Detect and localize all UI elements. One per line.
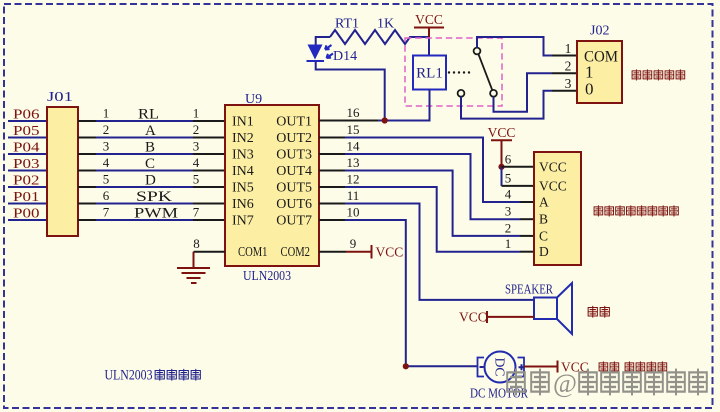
- svg-text:IN2: IN2: [232, 131, 254, 146]
- svg-text:ULN2003: ULN2003: [243, 269, 291, 284]
- svg-text:2: 2: [103, 122, 110, 137]
- wire OUT6 to speaker: [345, 204, 534, 300]
- svg-text:1: 1: [505, 236, 512, 251]
- svg-text:VCC: VCC: [539, 159, 567, 174]
- svg-text:4: 4: [193, 155, 200, 170]
- IC U9 ULN2003: [225, 105, 319, 266]
- svg-text:D: D: [145, 173, 156, 189]
- svg-text:ULN2003: ULN2003: [105, 368, 153, 384]
- svg-text:VCC: VCC: [415, 12, 443, 27]
- wire OUT4 to stepper C: [345, 171, 520, 236]
- svg-text:IN3: IN3: [232, 148, 254, 163]
- svg-text:15: 15: [347, 122, 360, 137]
- wire OUT1 to relay coil: [378, 120, 431, 122]
- wire net P01: [8, 203, 47, 205]
- connector J02: [577, 41, 622, 103]
- label dc motor interface cn: [599, 362, 667, 372]
- U9 pin 14 stub OUT3: [319, 153, 345, 155]
- svg-text:COM1: COM1: [238, 245, 268, 260]
- svg-text:IN5: IN5: [232, 181, 254, 196]
- wire J01 pin5 to U9 IN5: [78, 186, 225, 188]
- svg-text:VCC: VCC: [376, 245, 404, 260]
- U9 pin 10 stub OUT7: [319, 219, 345, 221]
- svg-text:P05: P05: [13, 123, 40, 138]
- svg-text:5: 5: [193, 172, 200, 187]
- svg-text:U9: U9: [245, 92, 262, 107]
- wire contact NC to J02 pin2: [494, 73, 553, 111]
- junction motor wire corner: [403, 363, 409, 369]
- svg-text:VCC: VCC: [459, 310, 487, 325]
- svg-text:P03: P03: [13, 156, 40, 171]
- svg-text:3: 3: [505, 204, 512, 219]
- svg-text:A: A: [539, 195, 549, 210]
- svg-text:7: 7: [103, 205, 110, 220]
- svg-text:13: 13: [347, 155, 360, 170]
- svg-text:OUT7: OUT7: [276, 214, 312, 229]
- svg-text:P06: P06: [13, 107, 40, 122]
- wire net P00: [8, 219, 47, 221]
- wire VCC to relay coil: [428, 37, 430, 56]
- svg-text:3: 3: [103, 139, 110, 154]
- LED D14: [308, 45, 323, 60]
- svg-text:2: 2: [565, 59, 572, 74]
- wire VCC to stepper pins: [501, 167, 503, 186]
- resistor RT1 1K: [330, 30, 429, 44]
- svg-text:COM2: COM2: [281, 245, 311, 260]
- svg-text:DC: DC: [493, 358, 508, 377]
- svg-text:OUT6: OUT6: [276, 197, 312, 212]
- wire contact NO to J02 pin3: [461, 91, 552, 119]
- svg-text:C: C: [145, 156, 155, 172]
- speaker LS: [534, 298, 557, 320]
- U9 pin 11 stub OUT6: [319, 203, 345, 205]
- wire J01 pin4 to U9 IN4: [78, 170, 225, 172]
- U9 pin 15 stub OUT2: [319, 137, 345, 139]
- svg-text:P02: P02: [13, 173, 40, 188]
- wire contact common to J02 pin1: [477, 37, 552, 56]
- svg-text:8: 8: [193, 236, 200, 251]
- wire J01 pin3 to U9 IN3: [78, 153, 225, 155]
- svg-text:P00: P00: [13, 206, 40, 221]
- svg-text:OUT2: OUT2: [276, 131, 312, 146]
- svg-text:3: 3: [565, 76, 572, 91]
- svg-text:1: 1: [565, 41, 572, 56]
- svg-text:IN1: IN1: [232, 115, 254, 130]
- svg-text:PWM: PWM: [134, 206, 178, 222]
- svg-text:6: 6: [505, 151, 512, 166]
- svg-text:SPEAKER: SPEAKER: [505, 283, 554, 298]
- svg-text:D14: D14: [333, 49, 357, 64]
- junction OUT1/D14/coil: [382, 117, 388, 123]
- svg-text:4: 4: [103, 155, 110, 170]
- svg-text:IN7: IN7: [232, 214, 254, 229]
- svg-text:0: 0: [585, 80, 594, 99]
- svg-text:B: B: [539, 212, 548, 227]
- wire J01 pin2 to U9 IN2: [78, 137, 225, 139]
- junction stepper VCC: [498, 164, 504, 170]
- wire net P02: [8, 186, 47, 188]
- U9 pin 13 stub OUT4: [319, 170, 345, 172]
- svg-text:4: 4: [505, 187, 512, 202]
- wire J01 pin7 to U9 IN7: [78, 219, 225, 221]
- svg-text:14: 14: [347, 139, 361, 154]
- svg-text:1K: 1K: [377, 17, 394, 32]
- svg-text:J02: J02: [590, 24, 609, 39]
- dc motor M1: [485, 352, 516, 383]
- svg-text:OUT5: OUT5: [276, 181, 312, 196]
- svg-text:OUT1: OUT1: [276, 115, 312, 130]
- svg-text:7: 7: [193, 205, 200, 220]
- connector J01: [47, 107, 78, 236]
- wire D14 cathode to OUT1: [316, 62, 385, 121]
- svg-text:RL1: RL1: [416, 66, 443, 82]
- svg-text:D: D: [539, 244, 549, 259]
- svg-text:16: 16: [347, 105, 361, 120]
- wire OUT7 to dc motor: [345, 220, 478, 366]
- svg-text:1: 1: [193, 106, 200, 121]
- svg-text:IN6: IN6: [232, 197, 254, 212]
- power VCC at COM2: [371, 245, 373, 259]
- wire net P05: [8, 137, 47, 139]
- ground: [177, 252, 210, 283]
- svg-text:VCC: VCC: [488, 125, 516, 140]
- wire net P06: [8, 120, 47, 122]
- svg-text:11: 11: [347, 188, 360, 203]
- svg-text:5: 5: [103, 172, 110, 187]
- svg-text:SPK: SPK: [136, 189, 172, 205]
- svg-text:OUT3: OUT3: [276, 148, 312, 163]
- U9 pin 8 stub: [194, 251, 226, 253]
- svg-text:2: 2: [193, 122, 200, 137]
- wire OUT5 to stepper D: [345, 187, 520, 252]
- svg-text:P01: P01: [13, 189, 40, 204]
- connector stepper motor: [534, 152, 581, 265]
- wire J01 pin1 to U9 IN1: [78, 120, 225, 122]
- svg-text:RT1: RT1: [335, 17, 359, 32]
- svg-text:6: 6: [103, 188, 110, 203]
- label relay interface: [632, 70, 685, 80]
- wire net P04: [8, 153, 47, 155]
- label stepper interface: [594, 206, 678, 216]
- svg-text:@: @: [553, 369, 577, 398]
- svg-text:2: 2: [505, 220, 512, 235]
- wire D14 anode to resistor: [316, 37, 330, 45]
- svg-text:10: 10: [347, 205, 360, 220]
- U9 pin 16 stub OUT1: [319, 120, 378, 122]
- wire OUT3 to stepper B: [345, 154, 520, 219]
- relay coil RL1: [413, 56, 446, 90]
- svg-text:A: A: [145, 123, 156, 139]
- svg-text:P04: P04: [13, 140, 40, 155]
- svg-text:OUT4: OUT4: [276, 164, 312, 179]
- svg-text:5: 5: [505, 170, 512, 185]
- svg-text:J01: J01: [47, 90, 73, 105]
- svg-text:3: 3: [193, 139, 200, 154]
- watermark: [507, 370, 707, 394]
- svg-text:12: 12: [347, 172, 360, 187]
- power VCC motor: [524, 361, 558, 373]
- wire coil bottom to OUT1: [429, 90, 431, 121]
- dotted link coil to contact: [448, 71, 470, 73]
- svg-text:1: 1: [103, 106, 110, 121]
- relay contacts: [474, 48, 481, 55]
- wire net P03: [8, 170, 47, 172]
- svg-text:9: 9: [350, 236, 357, 251]
- U9 pin 12 stub OUT5: [319, 186, 345, 188]
- svg-text:C: C: [539, 228, 548, 243]
- relay enclosure dashed: [405, 38, 502, 106]
- U9 pin 9 stub: [319, 251, 346, 253]
- svg-text:RL: RL: [138, 107, 159, 123]
- svg-text:VCC: VCC: [539, 178, 567, 193]
- label speaker cn: [588, 306, 609, 317]
- wire OUT2 to stepper A: [345, 138, 520, 203]
- svg-text:IN4: IN4: [232, 164, 254, 179]
- wire J01 pin6 to U9 IN6: [78, 203, 225, 205]
- svg-text:B: B: [145, 140, 155, 156]
